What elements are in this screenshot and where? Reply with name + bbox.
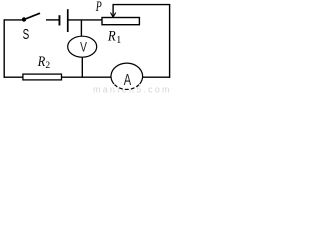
svg-text:V: V (80, 39, 87, 54)
svg-text:2: 2 (45, 61, 50, 71)
svg-text:S: S (23, 27, 30, 43)
svg-text:R: R (37, 54, 45, 70)
svg-text:P: P (95, 0, 102, 15)
svg-text:R: R (107, 29, 116, 45)
svg-text:A: A (124, 72, 132, 89)
svg-text:1: 1 (116, 35, 121, 46)
